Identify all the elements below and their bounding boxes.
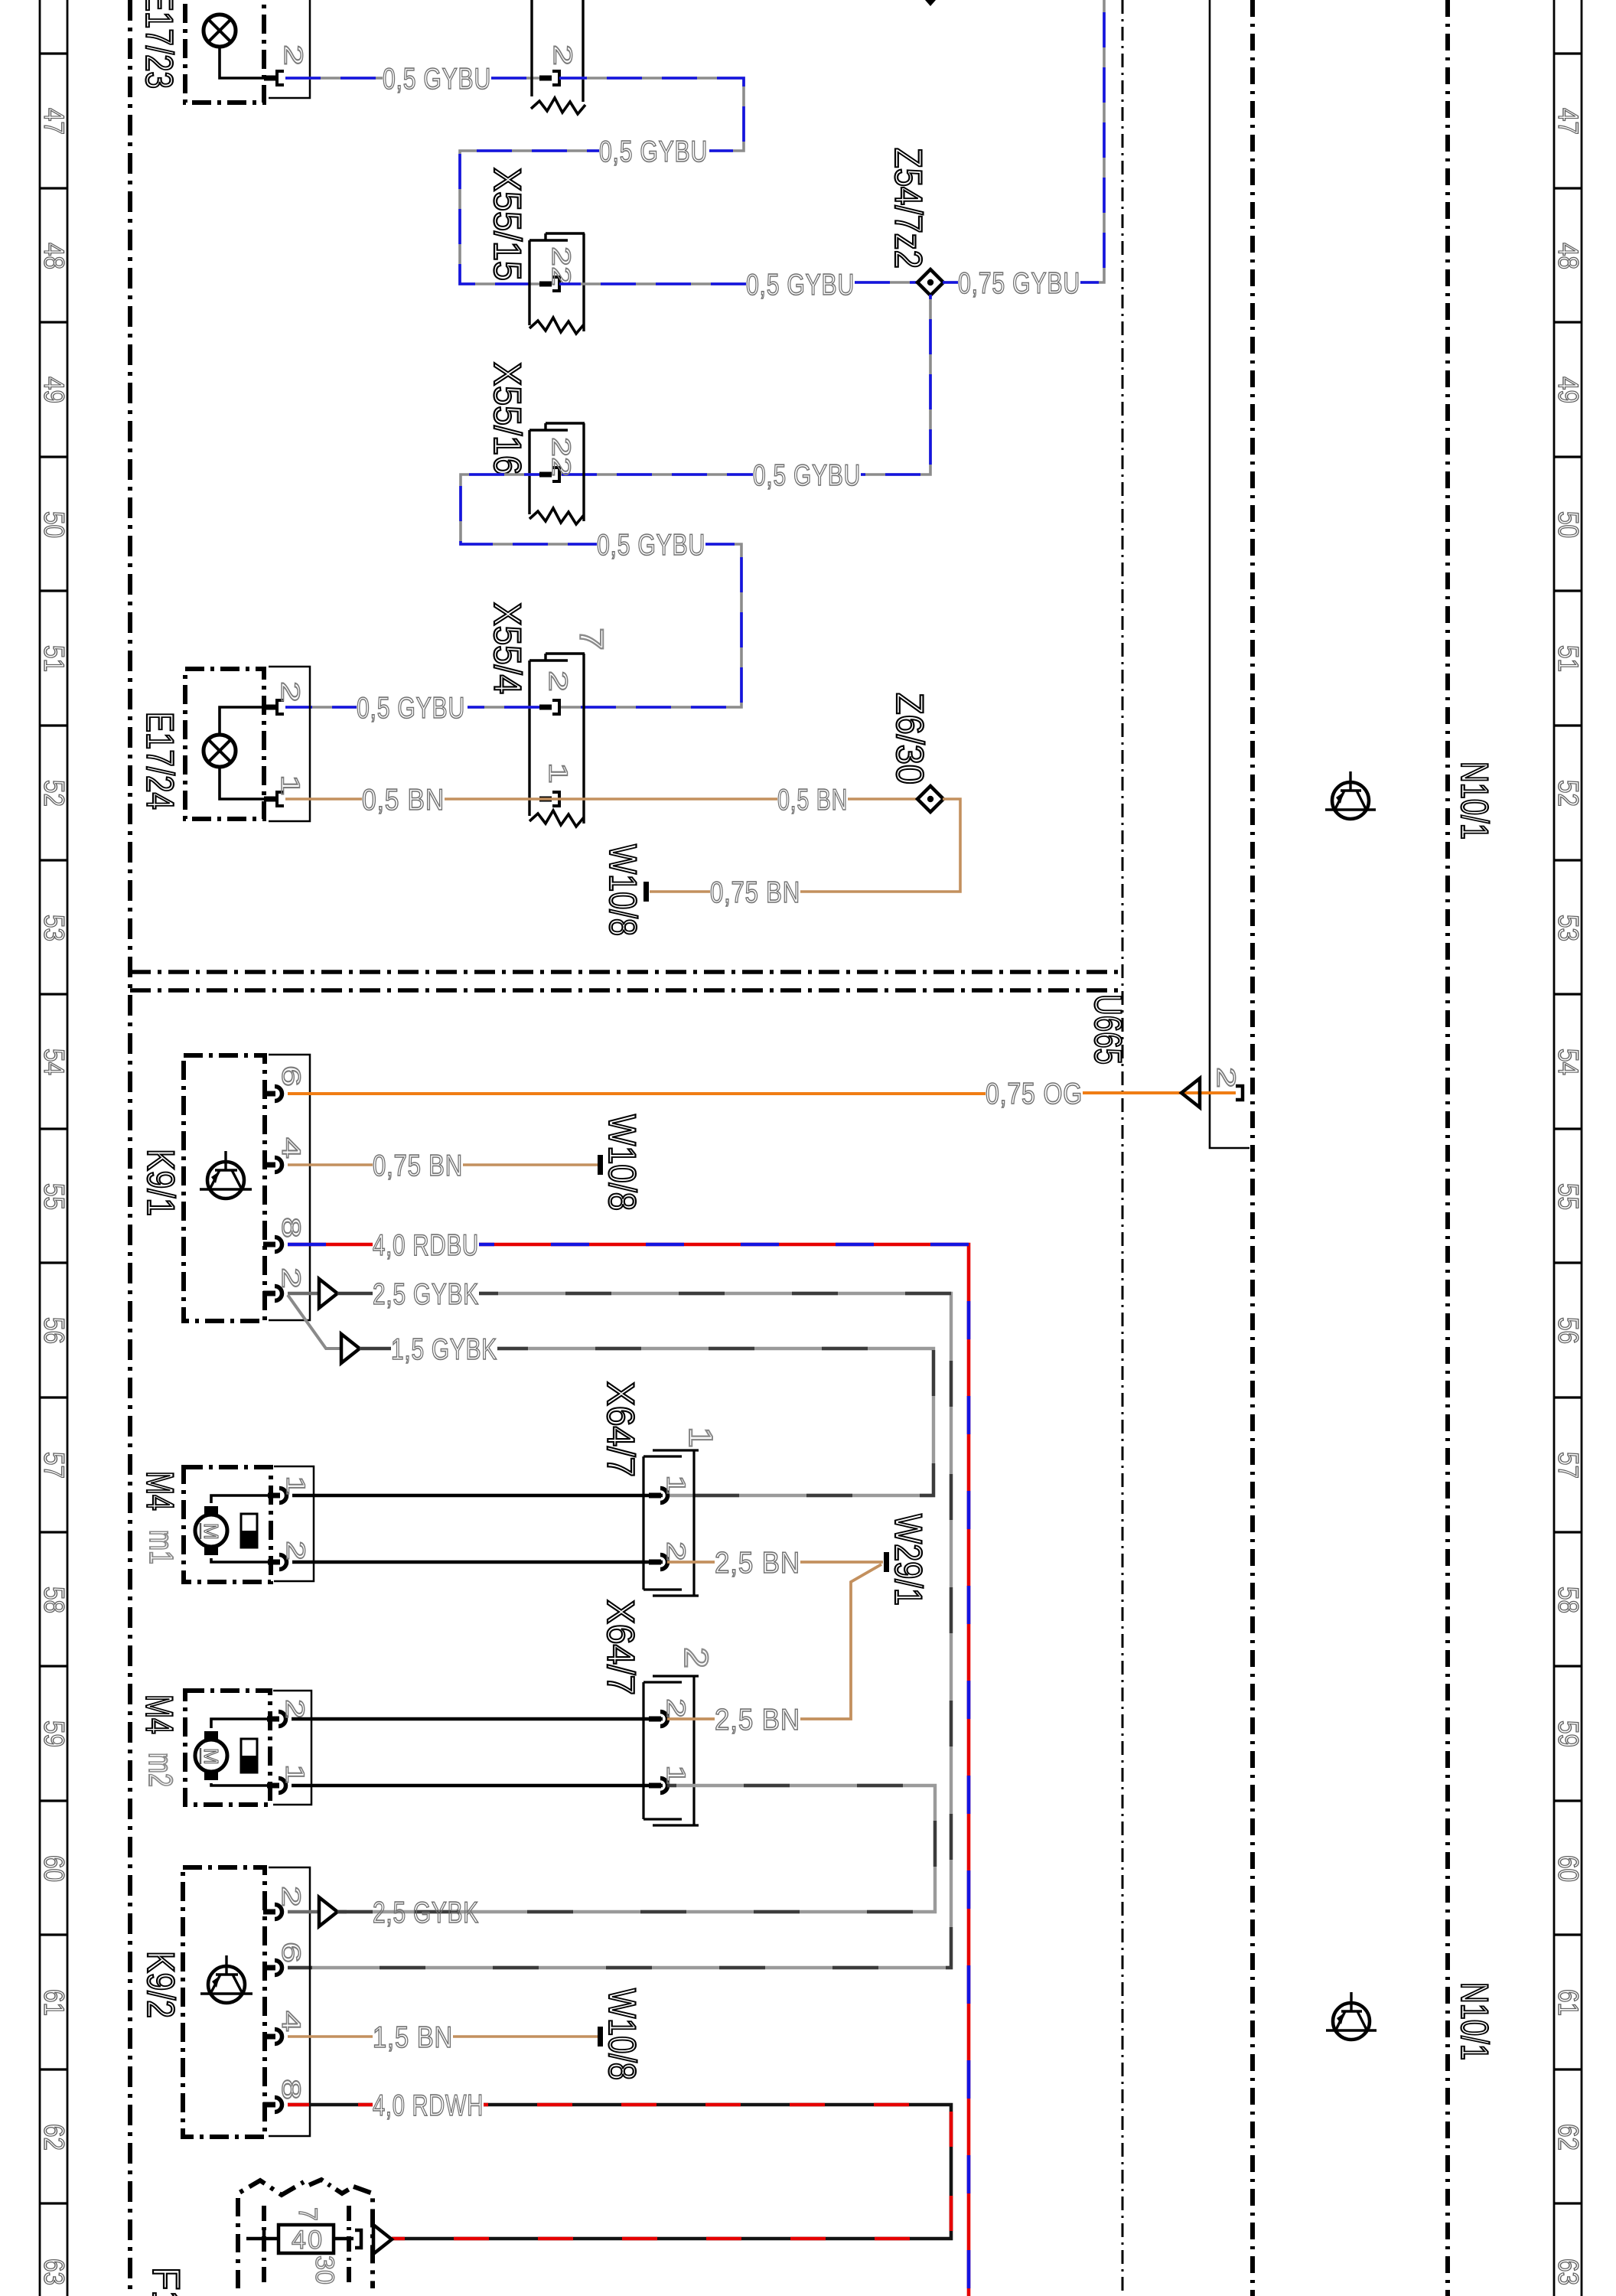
relay K9/1 component box (184, 1055, 265, 1321)
E17/23 pin strip (269, 0, 310, 98)
N10/1 connector strip (solid) (1210, 0, 1249, 1148)
svg-text:F1: F1 (145, 2267, 187, 2296)
K9/1 pin strip (269, 1055, 310, 1320)
svg-text:60: 60 (1552, 1855, 1584, 1882)
svg-text:0,5 GYBU: 0,5 GYBU (383, 63, 491, 96)
wire 1,5 BN to ground (453, 2035, 598, 2038)
E17/24 pin 1 (264, 797, 277, 802)
svg-text:Z6/30: Z6/30 (888, 693, 931, 784)
svg-text:1,5 BN: 1,5 BN (373, 2021, 453, 2054)
svg-text:X64/7: X64/7 (599, 1381, 642, 1477)
svg-text:7: 7 (293, 2207, 322, 2221)
svg-text:50: 50 (1552, 511, 1584, 538)
svg-text:56: 56 (1552, 1317, 1584, 1344)
svg-text:m2: m2 (142, 1753, 179, 1787)
wire into X55/16 pin 22 (559, 473, 753, 476)
wire 0,5 BN to X55/4 pin1 and on (445, 797, 777, 801)
wire 2,5 BN to ground W29/1 (800, 1561, 883, 1564)
left ruler column (40, 0, 67, 2296)
svg-text:0,5 BN: 0,5 BN (362, 784, 445, 817)
connector X55/16 (546, 422, 585, 424)
relay K9/2 transistor symbol (208, 1966, 245, 2003)
wire 0,5 GYBU E17/23 pin2 to X55/14 (285, 77, 383, 80)
svg-text:57: 57 (1552, 1452, 1584, 1479)
connector X55/14 (cut at top) (530, 0, 533, 96)
wire label gap segment (337, 1910, 373, 1913)
wire 2,5 GYBK to K9/2 pin6 (288, 1293, 951, 1968)
wire 0,75 OG cont (1083, 1091, 1236, 1094)
wire 2,5 GYBK X64/7 (2) pin1 loop to K9/2 pin2 (337, 1786, 935, 1912)
lamp E17/23 internal lead to pin 2 (220, 47, 264, 78)
svg-text:2: 2 (276, 1886, 305, 1907)
fuse box inner partition right (347, 2206, 351, 2285)
lamp E17/24 bulb symbol (204, 735, 236, 767)
wire 1,5 BN K9/2 pin4 (288, 2035, 373, 2038)
svg-text:2: 2 (548, 44, 577, 66)
svg-text:51: 51 (1552, 645, 1584, 672)
svg-text:55: 55 (38, 1183, 70, 1210)
svg-text:2: 2 (281, 1541, 310, 1561)
svg-text:0,5 BN: 0,5 BN (777, 784, 848, 817)
in-line connector arrow at fuse output (373, 2225, 392, 2254)
M4 m1 internal leads (211, 1495, 271, 1503)
motor M4 m2 suppressor (241, 1739, 257, 1773)
wire 0,5 BN into splice Z6/30 (848, 797, 918, 801)
svg-text:N10/1: N10/1 (1453, 762, 1496, 840)
X55/4 pin 2 (539, 705, 552, 710)
wire cont to corner and down (460, 151, 599, 284)
svg-text:30: 30 (310, 2255, 339, 2285)
lamp E17/23 component box (cut at top) (185, 0, 264, 103)
svg-text:53: 53 (38, 915, 70, 941)
svg-text:1: 1 (280, 1764, 309, 1784)
M4 m1 pin 2 (268, 1560, 280, 1565)
N10/1 module box right edge (thick dash-dot) (1445, 0, 1450, 2296)
K9/2 pin strip (269, 1867, 310, 2136)
motor M4 m1 component box (184, 1467, 271, 1582)
svg-text:59: 59 (1552, 1720, 1584, 1747)
wire 2,5 BN (2) up to ground W29/1 (800, 1564, 881, 1719)
K9/2 pin 8 (263, 2102, 275, 2108)
wire 0,5 GYBU from X55/14 down-left to X55/15 (559, 78, 744, 151)
wire 0,75 GYBU right of splice (943, 281, 958, 284)
splice Z6/30 diamond (917, 786, 943, 812)
boundary right edge (thin dash-dot) (1122, 0, 1124, 2296)
svg-text:54: 54 (1552, 1049, 1584, 1075)
svg-text:2: 2 (280, 1699, 309, 1719)
motor M4 m2 symbol (204, 1731, 218, 1740)
motor M4 m2 component box (185, 1691, 270, 1805)
X55/16 pin 22 (539, 472, 552, 478)
svg-text:47: 47 (38, 108, 70, 135)
svg-text:53: 53 (1552, 915, 1584, 941)
M4 m1 pin 1 (268, 1493, 280, 1499)
fuse element f40 (279, 2225, 334, 2253)
wire 0,75 BN splice to ground (800, 799, 960, 892)
in-line connector arrow 1,5 GYBK (341, 1334, 360, 1363)
wire 0,5 GYBU splice down to X55/16 row (861, 295, 930, 475)
wire into E17/24 pin 2 (285, 706, 357, 709)
svg-text:61: 61 (1552, 1989, 1584, 2016)
wiring-harness boundary (upper dash-dot box) left edge (128, 0, 132, 2296)
in-line connector arrow on OG wire (1181, 1078, 1200, 1107)
arrow remnant at top edge (925, 0, 936, 6)
K9/2 pin 4 (263, 2034, 275, 2040)
svg-text:2: 2 (1211, 1067, 1240, 1088)
svg-text:W10/8: W10/8 (601, 1988, 643, 2080)
M4 m1 pin strip (274, 1466, 314, 1581)
ruler numbers 47-63 left (38, 108, 70, 2285)
svg-text:1: 1 (682, 1427, 719, 1448)
svg-text:0,75 GYBU: 0,75 GYBU (958, 267, 1080, 300)
svg-text:K9/1: K9/1 (139, 1149, 182, 1216)
X55/4 pin 1 (539, 797, 552, 802)
wire 2,5 GYBK K9/1 pin2 (288, 1292, 319, 1295)
svg-text:49: 49 (38, 377, 70, 403)
wire M4 m1 pin1 to X64/7 (292, 1494, 663, 1498)
svg-text:2,5 GYBK: 2,5 GYBK (373, 1896, 479, 1929)
svg-text:63: 63 (38, 2258, 70, 2285)
splice Z54/7z2 diamond (917, 269, 943, 295)
svg-text:M: M (200, 1748, 223, 1765)
X55/15 pin 22 (539, 282, 552, 287)
svg-text:X55/4: X55/4 (486, 602, 529, 694)
wire 0,5 GYBU left of X55/16 down (461, 475, 597, 544)
X64/7 (2) pin 1 (649, 1783, 661, 1789)
wire 0,5 GYBU right of X55/15 (559, 282, 746, 285)
wire 4,0 RDBU to lower right, down page (479, 1244, 969, 2296)
svg-text:54: 54 (38, 1049, 70, 1075)
svg-text:m1: m1 (142, 1530, 180, 1564)
K9/1 pin 2 (263, 1291, 275, 1296)
svg-text:2: 2 (276, 1267, 305, 1289)
svg-text:0,5 GYBU: 0,5 GYBU (357, 692, 465, 725)
wire 4,0 RDWH to fuse (392, 2105, 951, 2239)
svg-text:58: 58 (1552, 1587, 1584, 1613)
ground W10/8 bar (643, 882, 649, 902)
svg-text:7: 7 (572, 628, 610, 651)
svg-text:W10/8: W10/8 (601, 1114, 643, 1211)
ruler numbers 47-63 right (1552, 108, 1584, 2285)
svg-text:1: 1 (281, 1476, 310, 1495)
fuse box inner partition left (262, 2206, 266, 2285)
wire 1,5 GYBK to X64/7 pin1 (497, 1349, 933, 1495)
ground W10/8 bar (2) (598, 1155, 603, 1175)
svg-text:1: 1 (543, 762, 572, 784)
X64/7 (1) pin 1 (649, 1493, 661, 1499)
svg-text:50: 50 (38, 511, 70, 538)
N10/1 pin 2 (1236, 1086, 1243, 1100)
X64/7 (1) pin 2 (649, 1560, 661, 1565)
control module N10/1 transistor symbol (upper) (1332, 782, 1369, 819)
lamp E17/24 internal leads (220, 707, 264, 735)
svg-text:22: 22 (546, 246, 575, 286)
svg-text:56: 56 (38, 1317, 70, 1344)
wire through fuse (246, 2237, 279, 2241)
K9/1 pin 8 (263, 1242, 275, 1247)
fuse box F outline (torn dash-dot boundary) (238, 2180, 304, 2288)
svg-text:48: 48 (1552, 243, 1584, 269)
svg-text:0,75 BN: 0,75 BN (373, 1150, 463, 1182)
svg-text:49: 49 (1552, 377, 1584, 403)
X55/14 pin 2 (539, 76, 552, 81)
E17/24 pin 2 (264, 705, 277, 710)
E17/24 pin strip (269, 667, 310, 821)
ground W10/8 bar (3) (598, 2027, 603, 2047)
M4 m2 pin strip (273, 1691, 311, 1805)
svg-text:4,0 RDWH: 4,0 RDWH (373, 2089, 484, 2122)
svg-text:0,5 GYBU: 0,5 GYBU (599, 135, 708, 168)
svg-text:57: 57 (38, 1452, 70, 1479)
relay K9/1 transistor symbol (207, 1162, 244, 1199)
svg-text:X55/15: X55/15 (486, 168, 529, 281)
svg-text:4,0 RDBU: 4,0 RDBU (373, 1229, 479, 1262)
X64/7 (2) pin 2 (649, 1717, 661, 1722)
svg-text:6: 6 (276, 1065, 305, 1087)
wire 0,5 BN E17/24 pin1 (285, 797, 362, 801)
svg-text:51: 51 (38, 645, 70, 672)
K9/1 pin 4 (263, 1163, 275, 1168)
lamp E17/23 bulb symbol (204, 15, 236, 47)
svg-text:6: 6 (276, 1942, 305, 1963)
svg-text:M: M (200, 1523, 223, 1540)
ground W29/1 bar (884, 1552, 889, 1572)
control module N10/1 transistor symbol (lower) (1333, 2003, 1370, 2040)
svg-text:1,5 GYBK: 1,5 GYBK (391, 1333, 497, 1366)
svg-text:22: 22 (546, 437, 575, 477)
upper box bottom edge (130, 970, 1122, 974)
svg-text:58: 58 (38, 1587, 70, 1613)
svg-text:X55/16: X55/16 (486, 362, 529, 475)
svg-text:E17/24: E17/24 (138, 712, 181, 810)
wire to splice Z54/7z2 (855, 281, 919, 284)
svg-text:52: 52 (1552, 780, 1584, 807)
lamp E17/24 component box (185, 669, 264, 819)
E17/23 pin 2 (264, 76, 277, 81)
right ruler column (1554, 0, 1582, 2296)
svg-text:61: 61 (38, 1989, 70, 2016)
svg-text:X64/7: X64/7 (599, 1600, 642, 1695)
wire 2,5 BN from X64/7 (2) pin2 (667, 1717, 715, 1720)
svg-text:2,5 BN: 2,5 BN (715, 1704, 800, 1737)
svg-text:8: 8 (276, 1217, 305, 1238)
wire 0,75 GYBU to top edge (1080, 0, 1104, 282)
svg-text:W29/1: W29/1 (887, 1514, 930, 1606)
svg-text:M4: M4 (138, 1694, 181, 1734)
wire 4,0 RDWH K9/2 pin8 (288, 2103, 373, 2107)
N10/1 module box left edge (thick dash-dot) (1250, 0, 1255, 2296)
svg-text:N10/1: N10/1 (1453, 1982, 1496, 2060)
svg-text:2,5 GYBK: 2,5 GYBK (373, 1278, 479, 1311)
svg-text:2: 2 (661, 1698, 690, 1718)
svg-text:55: 55 (1552, 1183, 1584, 1210)
K9/2 pin 2 (263, 1910, 275, 1915)
svg-text:60: 60 (38, 1855, 70, 1882)
wire K9/2 pin2 stub (288, 1910, 319, 1913)
wire 0,5 GYBU cont. (491, 77, 539, 80)
svg-text:1: 1 (661, 1475, 690, 1495)
svg-text:0,5 GYBU: 0,5 GYBU (746, 269, 855, 302)
motor M4 m1 symbol (204, 1506, 218, 1515)
svg-text:0,75 BN: 0,75 BN (710, 876, 800, 909)
svg-text:62: 62 (38, 2124, 70, 2151)
svg-text:2,5 BN: 2,5 BN (715, 1547, 800, 1580)
svg-text:W10/8: W10/8 (601, 844, 644, 936)
svg-text:4: 4 (276, 2011, 305, 2032)
relay K9/2 component box (183, 1867, 265, 2137)
in-line connector arrow 2,5 GYBK (2) (319, 1897, 337, 1926)
svg-text:2: 2 (677, 1647, 715, 1668)
wire M4 m2 pin1 to X64/7 (2) (292, 1784, 663, 1788)
K9/1 pin 6 (263, 1091, 275, 1097)
fuse output pin bracket (355, 2230, 361, 2248)
svg-text:52: 52 (38, 780, 70, 807)
connector X64/7 (1) (642, 1456, 644, 1590)
wire M4 m2 pin2 to X64/7 (2) (292, 1717, 663, 1721)
connector X55/4 (546, 652, 585, 654)
M4 m2 pin 1 (267, 1783, 279, 1789)
wire 0,75 BN to ground (463, 1163, 598, 1166)
svg-text:U665: U665 (1087, 994, 1129, 1065)
svg-text:59: 59 (38, 1720, 70, 1747)
svg-text:2: 2 (543, 670, 572, 692)
M4 m2 internal leads (211, 1719, 270, 1728)
svg-text:8: 8 (276, 2079, 305, 2100)
svg-text:62: 62 (1552, 2124, 1584, 2151)
fuse wire cross tick (262, 2229, 266, 2249)
svg-text:2: 2 (279, 44, 308, 66)
lower box (U665) top edge (130, 988, 1122, 993)
connector X64/7 (2) (642, 1682, 644, 1819)
wire 0,75 OG K9/1 pin6 to N10/1 (288, 1092, 986, 1095)
connector X55/15 (546, 232, 585, 234)
wire 4,0 RDBU K9/1 pin8 (288, 1243, 373, 1247)
wire 2,5 BN from X64/7 (1) pin2 (667, 1561, 715, 1564)
svg-text:48: 48 (38, 243, 70, 269)
in-line connector arrow 2,5 GYBK (319, 1279, 337, 1308)
svg-text:2: 2 (661, 1541, 690, 1561)
svg-text:63: 63 (1552, 2258, 1584, 2285)
svg-text:0,5 GYBU: 0,5 GYBU (597, 529, 705, 562)
svg-text:47: 47 (1552, 108, 1584, 135)
M4 m2 pin 2 (267, 1717, 279, 1722)
wire 0,75 BN K9/1 pin4 (288, 1163, 373, 1166)
K9/2 pin 6 (263, 1965, 275, 1971)
wire 0,5 GYBU X55/4 to E17/24 (468, 706, 539, 709)
svg-text:1: 1 (275, 775, 305, 796)
svg-text:2: 2 (275, 681, 305, 703)
wire M4 m1 pin2 to X64/7 (292, 1561, 663, 1564)
svg-text:K9/2: K9/2 (139, 1951, 182, 2018)
wire 0,75 BN into ground (650, 890, 710, 893)
svg-text:0,5 GYBU: 0,5 GYBU (753, 459, 861, 492)
wire 1,5 GYBK diagonal from K9/1 pin2 (288, 1295, 341, 1349)
svg-text:1: 1 (661, 1765, 690, 1785)
motor M4 m1 suppressor (241, 1514, 257, 1548)
svg-text:4: 4 (276, 1137, 305, 1159)
svg-text:M4: M4 (138, 1471, 181, 1511)
wire corner down to X55/4 row (559, 544, 741, 707)
svg-text:Z54/7z2: Z54/7z2 (887, 148, 930, 269)
svg-text:E17/23: E17/23 (138, 0, 181, 89)
svg-text:0,75 OG: 0,75 OG (986, 1078, 1083, 1110)
